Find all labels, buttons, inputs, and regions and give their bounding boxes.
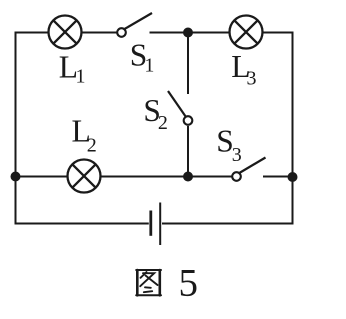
wire left node to L2 <box>16 176 69 178</box>
caption character TU (figure) <box>136 270 161 295</box>
lamp L2 <box>68 160 101 193</box>
svg-text:S3: S3 <box>216 123 242 166</box>
wire center node to S3 <box>188 176 232 178</box>
svg-text:L3: L3 <box>231 49 256 89</box>
node left junction <box>11 172 21 182</box>
wire S3 to right node <box>263 176 293 178</box>
lamp L3 <box>230 16 263 49</box>
wire middle branch lower (S2 to center node) <box>187 126 189 177</box>
wire bottom-left segment <box>16 223 149 225</box>
wire L2 to center node <box>101 176 189 178</box>
wire bottom-right segment <box>162 223 293 225</box>
node top junction <box>183 28 193 38</box>
svg-text:S1: S1 <box>130 38 155 77</box>
wire between top node and L3 <box>188 32 230 34</box>
switch S1 <box>117 13 152 37</box>
battery negative plate (short) <box>149 211 152 236</box>
switch S3 <box>232 158 265 181</box>
wire left side vertical <box>15 32 17 225</box>
wire middle branch upper (top node to S2) <box>187 33 189 95</box>
node right junction <box>288 172 298 182</box>
switch S2 <box>168 91 192 125</box>
svg-text:L2: L2 <box>72 114 97 157</box>
svg-text:5: 5 <box>179 262 199 305</box>
wire top-left segment <box>16 32 49 34</box>
lamp L1 <box>49 16 82 49</box>
svg-text:L1: L1 <box>59 50 86 88</box>
battery positive plate (long) <box>159 203 161 246</box>
node center junction <box>183 172 193 182</box>
svg-text:S2: S2 <box>143 93 168 134</box>
wire between L1 and S1 <box>82 32 118 34</box>
wire L3 to top-right corner <box>263 32 293 34</box>
wire between S1 and top node <box>150 32 189 34</box>
wire right side vertical <box>292 32 294 225</box>
